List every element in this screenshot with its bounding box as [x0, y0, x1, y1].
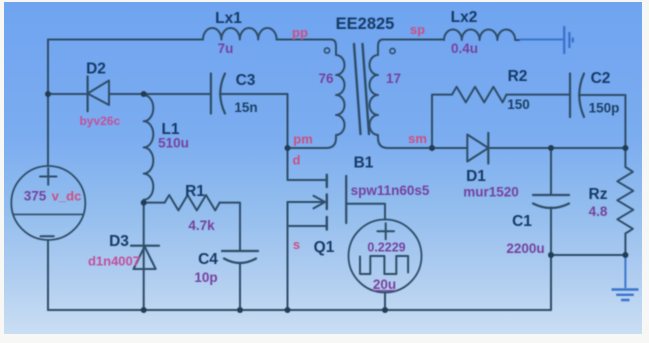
wire Lx2 right	[515, 39, 519, 41]
junction Rz bottom / ground	[622, 252, 628, 258]
wire Q1 source down	[287, 202, 289, 310]
svg-text:pp: pp	[292, 25, 308, 40]
junction node pm / Q1 drain	[285, 145, 291, 151]
designator labels (navy)	[86, 9, 610, 268]
svg-text:v_dc: v_dc	[52, 189, 82, 204]
junction C1 bottom link	[548, 252, 554, 258]
svg-text:C1: C1	[512, 213, 532, 230]
resistor R2	[452, 87, 506, 103]
capacitor C2	[569, 74, 571, 118]
wire left rail lower	[47, 240, 49, 310]
wire pm vertical / drain	[288, 94, 327, 180]
wire R2 to C2	[506, 94, 570, 96]
inductor Lx2	[444, 29, 515, 40]
svg-text:d1n4007: d1n4007	[88, 254, 140, 269]
junction bottom rail C4	[237, 307, 243, 313]
transformer B1 core	[354, 44, 369, 134]
capacitor C4	[222, 250, 258, 252]
junction C2 / Rz top	[622, 145, 628, 151]
diode D2	[86, 77, 88, 112]
wire pulse source down	[384, 293, 386, 311]
junction node sm / R2 branch	[429, 145, 435, 151]
wire D3 vertical	[143, 203, 145, 310]
junction bottom rail V2	[382, 307, 388, 313]
wire bottom rail	[48, 309, 551, 311]
junction bottom rail Q1 source	[285, 307, 291, 313]
wire C3 branch	[144, 93, 211, 95]
capacitor C1	[533, 194, 569, 196]
wire C1 branch	[550, 148, 552, 195]
svg-text:15n: 15n	[234, 100, 257, 115]
svg-text:sp: sp	[410, 22, 425, 37]
wire D2 branch left	[48, 93, 88, 95]
phase dot secondary	[390, 48, 395, 53]
svg-text:0.2229: 0.2229	[367, 241, 405, 255]
svg-text:R1: R1	[185, 183, 205, 200]
svg-text:B1: B1	[354, 155, 374, 172]
svg-text:150p: 150p	[589, 101, 620, 116]
svg-text:byv26c: byv26c	[79, 114, 120, 128]
wire top rail left	[48, 39, 203, 41]
wire top rail sp	[383, 39, 444, 41]
resistor R1	[165, 195, 220, 210]
transistor Q1 source lead	[288, 225, 327, 227]
svg-text:sm: sm	[408, 131, 427, 146]
pulse source waveform	[360, 256, 408, 274]
wire C1 to ground link	[551, 254, 625, 256]
wire pm to winding	[288, 138, 337, 148]
wire D2 to node	[109, 93, 144, 95]
svg-text:D2: D2	[86, 61, 106, 78]
junction bottom rail D3	[141, 307, 147, 313]
svg-text:7u: 7u	[218, 41, 234, 56]
junction node D2-L1-C3	[141, 91, 147, 97]
svg-text:mur1520: mur1520	[463, 185, 519, 200]
wire D1 to C1 node	[488, 147, 625, 149]
wire C2 right	[579, 95, 625, 148]
wire C4 down	[239, 263, 241, 310]
inductor L1	[144, 95, 154, 200]
svg-text:C4: C4	[198, 251, 218, 268]
svg-text:0.4u: 0.4u	[451, 41, 478, 56]
svg-text:17: 17	[386, 71, 401, 86]
transistor Q1 channel	[326, 175, 328, 230]
svg-text:D1: D1	[466, 168, 486, 185]
wire C3 right	[220, 93, 288, 95]
svg-text:10p: 10p	[194, 270, 217, 285]
pulse source V2	[349, 220, 422, 293]
junction left-rail / D2 anode	[45, 91, 51, 97]
svg-text:Q1: Q1	[314, 239, 335, 256]
capacitor C3	[210, 74, 212, 114]
svg-text:d: d	[293, 153, 301, 168]
node labels (pink)	[52, 22, 427, 269]
wire R2 branch up	[432, 95, 452, 148]
svg-text:76: 76	[318, 71, 334, 86]
svg-text:150: 150	[507, 97, 530, 112]
svg-text:Rz: Rz	[589, 186, 608, 203]
svg-text:Lx1: Lx1	[215, 10, 242, 27]
diode D3	[131, 245, 159, 247]
wire sm line	[388, 147, 467, 149]
transformer B1 secondary winding	[370, 40, 389, 149]
svg-text:R2: R2	[508, 68, 528, 85]
svg-text:C3: C3	[236, 72, 256, 89]
wire left rail upper	[47, 40, 49, 167]
inductor Lx1	[203, 28, 277, 40]
svg-text:D3: D3	[109, 233, 129, 250]
junction D1 cathode / C1 branch	[548, 145, 554, 151]
diode D1	[467, 135, 488, 162]
ground bottom right	[612, 255, 639, 300]
transformer B1 primary winding	[331, 40, 345, 139]
junction L1-R1-D3	[141, 200, 147, 206]
wire C1 down	[550, 208, 552, 311]
value labels (purple)	[24, 41, 608, 292]
svg-text:spw11n60s5: spw11n60s5	[351, 183, 430, 198]
transistor Q1 bulk arrow	[288, 201, 325, 203]
wire R1 to C4	[220, 203, 240, 251]
svg-text:4.7k: 4.7k	[188, 218, 215, 233]
svg-text:510u: 510u	[158, 136, 189, 151]
value labels (navy small)	[234, 97, 619, 116]
svg-text:4.8: 4.8	[589, 204, 608, 219]
phase dot primary	[324, 48, 329, 53]
svg-text:EE2825: EE2825	[336, 15, 395, 33]
svg-text:2200u: 2200u	[506, 241, 544, 256]
svg-text:20u: 20u	[373, 277, 396, 292]
resistor Rz	[617, 148, 633, 255]
svg-text:375: 375	[24, 189, 47, 204]
wire gate to pulse source	[346, 204, 385, 220]
transistor Q1 gate bar	[345, 176, 347, 223]
svg-text:Lx2: Lx2	[451, 9, 478, 26]
wire top rail pp	[277, 39, 331, 41]
svg-text:pm: pm	[293, 132, 313, 147]
ground top right	[520, 26, 573, 54]
svg-text:s: s	[293, 237, 300, 252]
voltage source V1 v_dc	[11, 166, 85, 240]
svg-text:C2: C2	[591, 70, 611, 87]
wire R1 branch	[144, 202, 165, 204]
